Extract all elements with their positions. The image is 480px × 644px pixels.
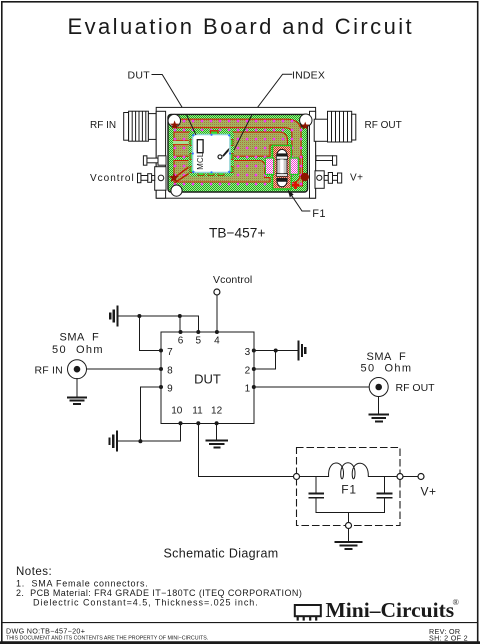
leader line to F1 bbox=[289, 191, 311, 211]
terminal right of F1 box bbox=[397, 474, 403, 480]
ground G3 (bottom left, sideways) bbox=[110, 432, 117, 451]
svg-text:V+: V+ bbox=[350, 173, 364, 184]
Vcontrol connector (left lower) bbox=[138, 167, 167, 191]
copper lower pour bbox=[174, 161, 270, 183]
svg-text:9: 9 bbox=[167, 384, 173, 395]
pin dots on DUT box bbox=[159, 330, 256, 425]
connector RF IN (SMA jack) bbox=[68, 360, 87, 379]
DUT footprint pads bbox=[190, 140, 233, 176]
terminal V+ bbox=[418, 474, 424, 480]
SMA connector RF OUT (right) bbox=[314, 111, 356, 142]
terminal left of F1 box bbox=[294, 474, 300, 480]
wire inside F1 box bbox=[300, 476, 398, 478]
leader line to index mark (on-board part) bbox=[234, 114, 252, 150]
wire pin 9 to bottom-left ground rail bbox=[140, 387, 161, 441]
node at G1 branch bbox=[137, 314, 141, 318]
DUT box bbox=[161, 332, 254, 423]
right header pin (upper stub) bbox=[316, 156, 337, 165]
mounting screw top-right bbox=[300, 114, 312, 130]
svg-text:1. SMA Female connectors.: 1. SMA Female connectors. bbox=[16, 578, 149, 588]
svg-text:F1: F1 bbox=[341, 483, 357, 497]
green pad ring around DUT chip bbox=[189, 131, 235, 177]
svg-text:1: 1 bbox=[245, 384, 251, 395]
ground G2 (below RF IN) bbox=[68, 379, 86, 404]
PCB substrate with green solder mask bbox=[168, 114, 308, 192]
RF IN launch channel (left of chip) bbox=[173, 140, 190, 144]
Mini-Circuits logo case icon bbox=[295, 605, 321, 621]
ground G7 (below F1 box) bbox=[335, 529, 361, 550]
label SMA F 50 Ohm (left) bbox=[35, 332, 105, 377]
wire F1 box to V+ bbox=[403, 476, 418, 478]
wire G3 rail to pin 10 bbox=[118, 423, 180, 441]
svg-text:Vcontrol: Vcontrol bbox=[90, 173, 135, 184]
svg-text:Schematic Diagram: Schematic Diagram bbox=[164, 547, 279, 561]
svg-text:2: 2 bbox=[245, 366, 251, 377]
mounting screw bottom-right (red cross) bbox=[292, 182, 299, 189]
wire G1 to pins 6,5 bbox=[119, 316, 199, 332]
svg-text:INDEX: INDEX bbox=[292, 69, 325, 81]
mounting screw bottom-left bbox=[171, 185, 182, 196]
wire pin 2 loop to pin 3 net bbox=[254, 351, 276, 370]
mounting screw top-left bbox=[168, 114, 180, 129]
capacitor C-left of F1 bbox=[309, 477, 323, 513]
svg-text:11: 11 bbox=[192, 406, 203, 417]
ground G5 (right, sideways) bbox=[298, 342, 305, 360]
label SMA F 50 Ohm (right) bbox=[361, 351, 436, 394]
svg-text:50 Ohm: 50 Ohm bbox=[52, 344, 104, 356]
svg-text:DWG NO:TB−457−20+: DWG NO:TB−457−20+ bbox=[6, 627, 85, 636]
svg-text:6: 6 bbox=[178, 336, 184, 347]
svg-text:RF IN: RF IN bbox=[35, 365, 63, 377]
pad above chip with red ring bbox=[211, 131, 219, 137]
node G3 rail bbox=[138, 439, 142, 443]
svg-text:Dielectric Constant=4.5, Thick: Dielectric Constant=4.5, Thickness=.025 … bbox=[33, 597, 259, 607]
svg-text:50 Ohm: 50 Ohm bbox=[361, 363, 413, 375]
svg-text:4: 4 bbox=[214, 336, 220, 347]
leader line to DUT chip (on-board part) bbox=[186, 114, 196, 135]
wire branch to pin 7 bbox=[139, 316, 161, 351]
F1 inductor component on board bbox=[265, 146, 298, 190]
svg-text:SMA F: SMA F bbox=[60, 332, 100, 344]
via dots grid bbox=[173, 117, 303, 187]
left header pin (upper stub) bbox=[143, 156, 166, 165]
wire pin 11 to F1 network bbox=[198, 423, 293, 476]
DUT chip (white, MCL) bbox=[192, 134, 231, 174]
svg-text:RF OUT: RF OUT bbox=[396, 382, 436, 394]
svg-text:3: 3 bbox=[245, 347, 251, 358]
ground G6 (below RF OUT) bbox=[370, 397, 388, 422]
chassis bracket behind board bbox=[156, 107, 315, 198]
svg-text:THIS DOCUMENT AND ITS CONTENTS: THIS DOCUMENT AND ITS CONTENTS ARE THE P… bbox=[6, 636, 208, 642]
svg-text:DUT: DUT bbox=[128, 69, 151, 81]
wire bottom rail of F1 bbox=[316, 513, 384, 523]
leader line to DUT chip (upper part) bbox=[152, 75, 187, 115]
svg-text:SMA F: SMA F bbox=[367, 351, 407, 363]
copper top strip + right launch band bbox=[174, 119, 301, 158]
svg-text:SH: 2 OF 2: SH: 2 OF 2 bbox=[429, 633, 468, 642]
svg-text:5: 5 bbox=[196, 336, 202, 347]
bottom black bar bbox=[0, 641, 480, 644]
svg-text:®: ® bbox=[453, 597, 460, 607]
red trace bottom-left (Vcontrol) bbox=[174, 164, 195, 183]
index pen mark bbox=[218, 155, 222, 159]
wire RF IN to pin 8 bbox=[87, 368, 162, 370]
SMA connector RF IN (left) bbox=[124, 111, 157, 141]
leader line to index mark (upper part) bbox=[252, 74, 292, 114]
capacitor C-right of F1 bbox=[378, 477, 392, 513]
V+ connector (right lower) bbox=[315, 171, 342, 189]
svg-text:10: 10 bbox=[171, 406, 183, 417]
svg-text:F1: F1 bbox=[312, 208, 326, 220]
svg-text:Notes:: Notes: bbox=[16, 566, 52, 578]
node pin3 line bbox=[274, 349, 278, 353]
ground G4 (below pin 12) bbox=[206, 423, 226, 447]
svg-text:7: 7 bbox=[167, 347, 173, 358]
via V+ (right edge) bbox=[301, 173, 309, 181]
dark mark top-right corner bbox=[300, 121, 307, 128]
svg-text:RF OUT: RF OUT bbox=[365, 120, 402, 131]
inductor L of F1 bbox=[329, 463, 369, 479]
copper bottom-right pour bbox=[274, 156, 303, 186]
svg-text:MCL: MCL bbox=[196, 152, 205, 170]
via Vcontrol (left edge) bbox=[169, 173, 179, 182]
svg-text:DUT: DUT bbox=[194, 372, 221, 387]
svg-text:V+: V+ bbox=[421, 484, 437, 498]
svg-text:Vcontrol: Vcontrol bbox=[213, 274, 252, 286]
copper main pour around DUT bbox=[174, 132, 288, 156]
svg-text:12: 12 bbox=[211, 406, 223, 417]
terminal Vcontrol bbox=[214, 289, 220, 295]
svg-text:8: 8 bbox=[167, 366, 173, 377]
wire pin 1 to RF OUT bbox=[254, 386, 369, 388]
wire pin 3 to ground G5 bbox=[254, 350, 297, 352]
svg-text:Evaluation Board and Circuit: Evaluation Board and Circuit bbox=[68, 14, 415, 39]
F1 filter dashed box bbox=[297, 448, 401, 526]
pin number labels bbox=[167, 336, 251, 417]
svg-text:Mini–Circuits: Mini–Circuits bbox=[326, 598, 455, 622]
wire Vcontrol to pin 4 bbox=[216, 295, 218, 332]
left end plate bbox=[156, 111, 165, 198]
terminal bottom of F1 box bbox=[346, 523, 352, 529]
ground G1 (top left, sideways) bbox=[110, 307, 117, 326]
node at pin6 riser bbox=[178, 314, 182, 318]
footer divider line bbox=[2, 622, 478, 624]
right end plate bbox=[310, 111, 316, 198]
connector RF OUT (SMA jack) bbox=[369, 378, 388, 397]
svg-text:RF IN: RF IN bbox=[90, 120, 116, 131]
svg-text:TB−457+: TB−457+ bbox=[209, 226, 265, 241]
